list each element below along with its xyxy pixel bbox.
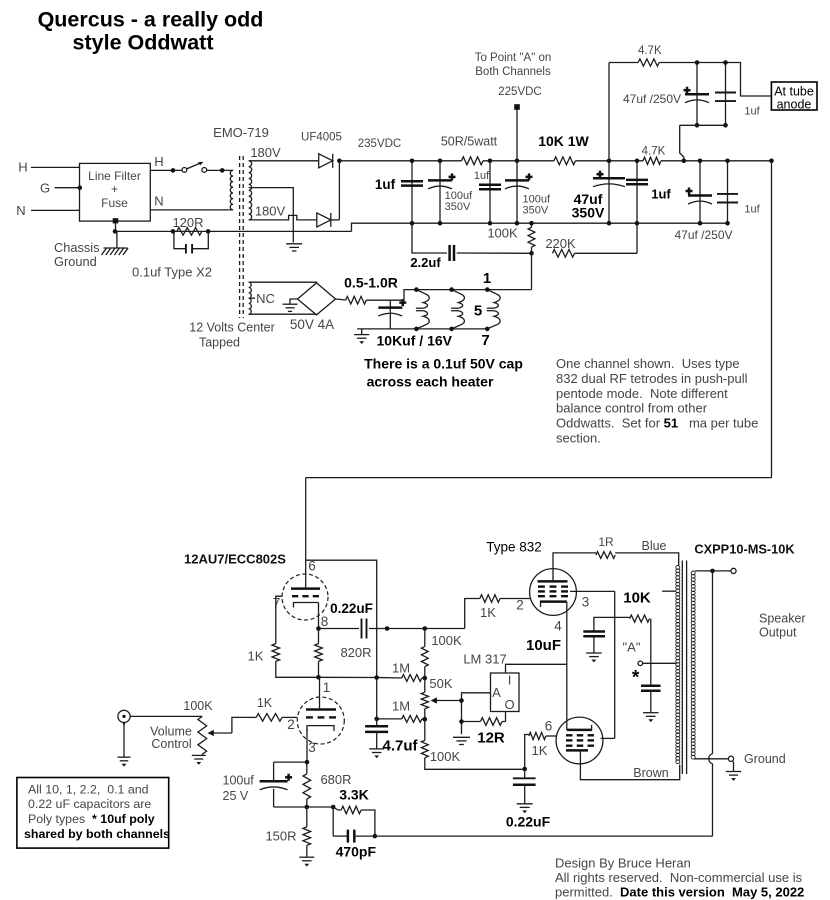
label Blue [641,539,666,553]
svg-text:6: 6 [545,719,553,734]
svg-text:H: H [18,160,27,175]
resistor 150R [303,807,311,857]
heater winding 3 [485,287,500,331]
ground bridge [283,304,298,311]
label 1K 832 upper [480,605,496,620]
svg-text:All rights reserved. Non-comm: All rights reserved. Non-commercial use … [555,870,803,885]
svg-text:470pF: 470pF [336,844,377,860]
svg-text:At tube: At tube [774,85,814,99]
svg-text:350V: 350V [445,201,471,213]
resistor 1M upper [377,675,427,682]
wire ground bus [410,221,730,226]
wire B+ feed horizontal [306,477,772,479]
svg-text:EMO-719: EMO-719 [213,125,269,140]
wire pot ground [201,754,203,755]
resistor 1K 832 upper [480,595,500,603]
svg-text:5: 5 [474,303,482,320]
svg-text:Control: Control [151,737,191,751]
wire node X right [320,675,379,680]
resistor 10K screen [630,615,650,622]
ground speaker [726,761,742,781]
label 12 Volts Center Tapped [189,321,274,350]
wire right B+ drop [771,161,773,478]
capacitor 1uf anode upper [715,60,736,127]
label 1K grid V1b [257,696,273,710]
label 47uf 250V upper [623,92,681,106]
tube V2b cathode [567,725,592,730]
svg-text:100uf: 100uf [223,774,255,788]
svg-text:0.22uF: 0.22uF [330,601,373,616]
svg-text:350V: 350V [572,205,605,221]
wire B+ rail seg2 [483,160,554,162]
svg-text:CXPP10-MS-10K: CXPP10-MS-10K [694,542,795,557]
transformer T1 primary [230,170,233,210]
label 470pF [336,844,377,860]
tube V2b grids [566,735,594,745]
label 4.7uf [382,738,418,755]
ground pot [192,755,206,764]
svg-text:"A": "A" [623,640,641,655]
label 10uF [526,637,561,654]
label Brown [633,766,668,780]
svg-text:One channel shown. Uses type: One channel shown. Uses type [556,356,740,371]
label 1R [598,535,614,549]
label 680R [320,772,351,787]
svg-text:350V: 350V [523,205,549,217]
speaker terminal plus [731,568,736,573]
wire feedback bottom [375,835,713,837]
svg-text:150R: 150R [265,829,296,844]
node G label [40,181,50,196]
label pin 7 heater [481,332,489,349]
capacitor 0.1uf X2 [174,231,208,253]
label 0.22uF lower [506,814,551,830]
svg-text:Line Filter: Line Filter [88,169,141,183]
svg-text:Blue: Blue [641,539,666,553]
label 100K pot [183,699,213,713]
label 100K upper mid [431,633,462,648]
capacitor 2.2uf [412,223,532,261]
wire bus jog [352,223,413,231]
wire secondary top to D1 [249,160,319,162]
label pin 3 V2a [582,595,590,610]
svg-text:0.22uF: 0.22uF [506,814,551,830]
svg-text:50R/5watt: 50R/5watt [441,135,498,149]
ground center tap [286,244,302,251]
tube V1a circle [282,574,328,620]
svg-text:7: 7 [481,332,489,349]
credits [555,856,804,900]
label 3.3K [339,787,369,803]
wire 10K node [594,617,630,631]
label 1uf anode lower [744,204,760,216]
svg-text:Oddwatts. Set for 51 ma per: Oddwatts. Set for 51 ma per tube [556,416,758,431]
svg-text:*: * [632,668,640,689]
svg-text:N: N [16,203,25,218]
label point A [623,640,641,655]
svg-text:style Oddwatt: style Oddwatt [73,31,214,55]
wire 1M node down [376,678,378,719]
pot 100K volume [198,716,207,754]
svg-text:10Kuf / 16V: 10Kuf / 16V [377,333,453,349]
wire secondary top [695,569,731,574]
svg-text:10K 1W: 10K 1W [538,133,589,149]
capacitor 1uf first [401,159,423,224]
label star [632,668,640,689]
label pin 1 heater [483,270,491,287]
ground star cap [643,713,659,722]
note box capacitors [17,778,170,849]
wire N to transformer [150,209,233,211]
label 47uf 350V [572,191,605,221]
label 180V top [250,145,281,160]
svg-text:A: A [492,685,501,700]
wire top branch right [659,63,771,97]
label 1K grid V1a [248,649,264,664]
resistor 100K divider [528,223,535,253]
resistor 100K lower mid [421,719,524,769]
wire V2a screen [570,590,615,592]
resistor 4.7K lower [643,157,661,164]
svg-text:Brown: Brown [633,766,668,780]
pot 50K balance [421,678,428,719]
node N out label [154,194,163,209]
svg-text:180V: 180V [255,204,286,219]
label 235VDC [358,138,401,150]
resistor 1M lower [374,716,427,723]
capacitor 0.22uF coupling [319,619,425,639]
chassis ground symbol [102,231,129,255]
wire up to 1K 832 [465,599,480,629]
ground heater [354,329,369,344]
svg-text:2: 2 [287,717,295,732]
svg-text:Tapped: Tapped [199,336,240,350]
svg-text:235VDC: 235VDC [358,138,401,150]
label 10Kuf 16V [377,333,453,349]
svg-text:100K: 100K [487,226,518,241]
label 100uf 350V first [445,190,473,213]
capacitor 47uf 250V upper [684,60,710,127]
label 47uf 250V lower [674,228,732,242]
label 1uf third [651,187,671,202]
tube V1b cathode [307,726,334,731]
label CXPP10-MS-10K [694,542,795,557]
heater winding 2 [449,287,464,331]
label NC [250,291,275,306]
svg-text:UF4005: UF4005 [301,132,342,144]
label pin 2 V2a [516,598,524,613]
svg-text:3.3K: 3.3K [339,787,369,803]
svg-text:Quercus - a really odd: Quercus - a really odd [38,8,264,32]
svg-text:8: 8 [321,614,329,629]
wire V1a grid out [276,596,283,643]
wire jack ground [123,723,125,758]
label Speaker Output [759,612,806,640]
resistor 680R [303,762,311,809]
diode D2 UF4005 [317,213,331,227]
wire H input [31,166,80,168]
svg-text:4.7K: 4.7K [642,146,666,158]
wire 1K bottom [276,661,320,677]
svg-text:0.22 uF capacitors are: 0.22 uF capacitors are [28,797,151,811]
svg-text:balance control from other: balance control from other [556,401,708,416]
svg-text:1uf: 1uf [651,187,671,202]
label 2.2uf [410,255,441,270]
svg-text:+: + [111,182,118,196]
capacitor 47uf 250V lower [686,159,713,224]
svg-text:4: 4 [554,619,562,634]
svg-text:0.5-1.0R: 0.5-1.0R [344,275,398,291]
svg-text:3: 3 [308,740,316,755]
wire to point A [514,104,520,163]
wire bridge minus [290,299,298,304]
svg-text:H: H [154,154,163,169]
wire cathode node [274,760,310,765]
svg-text:LM 317: LM 317 [463,652,506,667]
transformer T1 heater secondary [249,282,252,314]
wire cathodes join [566,602,568,730]
svg-text:Chassis: Chassis [54,240,100,255]
svg-text:47uf /250V: 47uf /250V [623,92,681,106]
transformer T2 core [682,561,686,775]
svg-text:1uf: 1uf [744,106,760,118]
tube V2a cathode [540,602,567,607]
resistor 220K [529,250,637,258]
svg-text:1uf: 1uf [375,177,396,192]
input jack J1 [118,710,130,724]
label 100uf 350V second [523,194,551,217]
svg-text:12R: 12R [477,730,505,747]
svg-text:1M: 1M [392,661,410,676]
resistor 1K grid V1b [251,714,286,722]
svg-text:1uf: 1uf [474,170,490,182]
resistor 1R [596,552,615,559]
svg-text:Speaker: Speaker [759,612,806,626]
transformer T2 primary [676,566,680,764]
note heater caps [364,356,523,390]
wire LM317 adjust [459,693,490,734]
label 0.5-1.0R [344,275,398,291]
wire LM317 out [505,712,507,722]
svg-text:Design By Bruce Heran: Design By Bruce Heran [555,856,691,871]
label 180V bottom [255,204,286,219]
label 50K [429,676,452,691]
label pin 6 V2b [545,719,553,734]
wire heater top to bridge [249,281,317,284]
svg-text:Ground: Ground [54,254,97,269]
heater winding 1 [414,287,429,331]
capacitor 10Kuf 16V [378,299,406,329]
title text [38,8,264,55]
transformer T1 secondary HV [249,161,252,220]
svg-text:Poly types * 10uf poly: Poly types * 10uf poly [28,812,155,826]
svg-text:There is a 0.1uf 50V cap: There is a 0.1uf 50V cap [364,356,523,372]
capacitor 10uF screen [583,632,605,653]
tube V1b circle [297,697,344,744]
wire screen down [614,591,616,738]
wire heater bottom to bridge [249,313,317,315]
label 12AU7/ECC802S [184,552,286,567]
svg-text:Ground: Ground [744,752,786,766]
svg-text:100K: 100K [430,749,461,764]
resistor 12R [462,718,506,726]
svg-text:10uF: 10uF [526,637,561,654]
svg-text:225VDC: 225VDC [498,86,541,98]
svg-text:50V 4A: 50V 4A [290,317,334,332]
ground jack [118,757,131,766]
svg-text:1K: 1K [248,649,264,664]
capacitor 47uf 350V [593,159,625,224]
ground 4.7uf [369,749,384,758]
label pin 5 heater [474,303,482,320]
svg-text:680R: 680R [320,772,351,787]
tube V1a grid [292,595,319,597]
wire branch down to rail [680,125,686,163]
label 1uf anode upper [744,106,760,118]
label 50R/5watt [441,135,498,149]
node H switched label [154,154,163,169]
wire 220K up to bus [636,223,638,253]
capacitor 4.7uf [365,719,388,749]
ground 150R [299,857,314,866]
label Ground [744,752,786,766]
label pin 8 V1a [321,614,329,629]
svg-text:section.: section. [556,431,601,446]
wire G input [55,185,83,190]
svg-text:Both Channels: Both Channels [475,66,551,78]
svg-text:Fuse: Fuse [101,196,128,210]
wire LM317 input [506,664,567,673]
svg-text:1: 1 [323,680,331,695]
label pin 6 V1a [308,559,316,574]
svg-text:25 V: 25 V [223,789,249,803]
svg-text:To Point "A" on: To Point "A" on [475,52,552,64]
svg-text:across each heater: across each heater [367,374,494,390]
label 100K divider [487,226,518,241]
label pin 4 V2a [554,619,562,634]
wire to 3.3K [307,805,336,810]
node N label [16,203,25,218]
label pin 3 V1b [308,740,316,755]
ground terminal [728,756,733,761]
svg-text:1R: 1R [598,535,614,549]
svg-text:1uf: 1uf [744,204,760,216]
svg-text:3: 3 [582,595,590,610]
tube V1a cathode [294,603,319,608]
wire bridge plus [336,299,346,300]
note one channel [556,356,758,446]
svg-text:820R: 820R [340,645,371,660]
label 10K 1W [538,133,589,149]
wire center tap [249,188,294,243]
svg-text:1: 1 [483,270,491,287]
svg-text:220K: 220K [545,236,576,251]
svg-text:NC: NC [256,291,275,306]
wire N input [31,209,80,211]
label Volume Control [150,725,192,752]
svg-text:180V: 180V [250,145,281,160]
svg-text:4.7uf: 4.7uf [382,738,418,755]
svg-text:1K: 1K [532,743,548,758]
svg-text:pentode mode. Note different: pentode mode. Note different [556,386,728,401]
bridge rectifier BR1 [298,283,336,315]
label pin 1 V1b [323,680,331,695]
wire 10K down [650,619,652,685]
svg-text:Output: Output [759,626,797,640]
label 150R [265,829,296,844]
label 0.22uF coupling [330,601,373,616]
svg-text:All 10, 1, 2.2, 0.1 and: All 10, 1, 2.2, 0.1 and [28,783,149,797]
resistor 50R/5watt [462,157,484,165]
resistor 4.7K upper [638,59,659,66]
wire chassis bus [113,229,352,234]
label 4.7K lower [642,146,666,158]
svg-text:12AU7/ECC802S: 12AU7/ECC802S [184,552,286,567]
wire B+ to V1a plate [305,478,307,589]
wire D2 to junction [331,219,340,221]
resistor 100K upper mid [421,629,428,679]
wire V2b plate down [580,750,679,779]
label 1uf first [375,177,396,192]
wire V1b cathode down [306,729,308,762]
switch S1 [182,162,207,172]
wire 1R to transformer [615,553,679,566]
transformer T1 label EMO-719 [213,125,269,140]
svg-text:shared by both channels: shared by both channels [24,827,170,841]
wire jack to pot [130,715,202,717]
wire top branch left [609,62,638,64]
wire filter box to bus [113,218,119,231]
svg-text:832 dual RF tetrodes in push-p: 832 dual RF tetrodes in push-pull [556,371,748,386]
label 1M upper [392,661,410,676]
wire secondary bottom [694,758,728,760]
svg-text:120R: 120R [172,215,203,230]
svg-text:2.2uf: 2.2uf [410,255,441,270]
line filter box U-LF [80,163,151,221]
resistor 820R [315,626,323,679]
wire B+ rail seg3 [575,160,643,162]
diode D1 UF4005 [319,154,333,168]
wire 1K to 832 grid [500,598,530,600]
label pin 7 V1a [273,596,281,611]
svg-text:4.7K: 4.7K [638,45,662,57]
svg-text:I: I [508,673,512,688]
ground LM317 [453,737,470,744]
label 4.7K upper [638,45,662,57]
IC LM317 box [491,673,520,713]
tube V2a circle [530,569,577,616]
label 820R [340,645,371,660]
wire heater minus bus [357,328,487,330]
tube V2a grids [538,587,568,597]
wire B+ rail seg4 [661,159,774,164]
label 12R [477,730,505,747]
tube V1b plate [306,708,336,711]
transformer T2 UL stub [662,590,676,592]
svg-text:100K: 100K [183,699,213,713]
wire branch bottom [680,124,726,126]
ground 10uF screen [586,653,602,662]
node H label [18,160,27,175]
svg-text:permitted. Date this version: permitted. Date this version May 5, 2022 [555,885,804,900]
wire V1b plate up [319,677,321,709]
label Chassis Ground [54,240,100,269]
wire V1a cathode down [318,603,320,629]
svg-text:50K: 50K [429,676,452,691]
svg-text:2: 2 [516,598,524,613]
label pin 2 V1b [287,717,295,732]
wire V2a plate up [553,553,596,582]
